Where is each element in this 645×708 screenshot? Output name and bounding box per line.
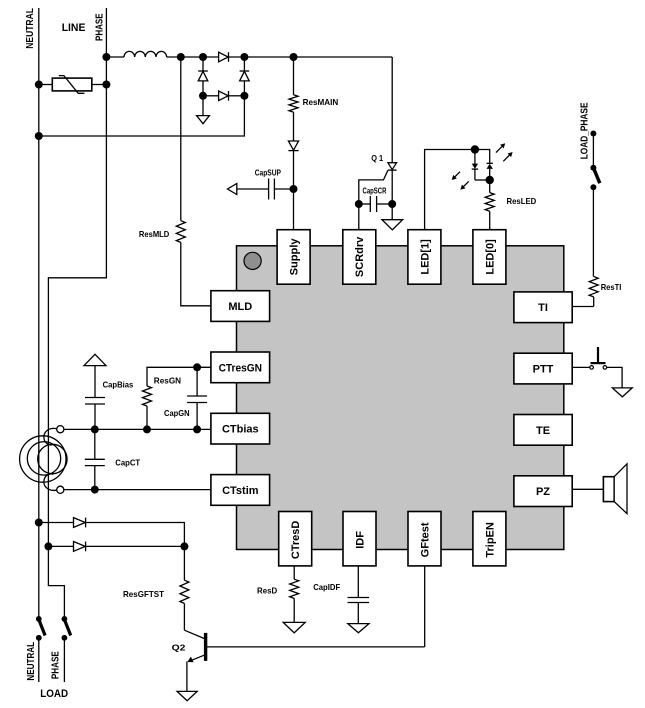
svg-text:PHASE: PHASE	[94, 13, 105, 41]
node: phase / top rail junction	[102, 53, 110, 61]
capacitor CapGN	[187, 367, 207, 429]
svg-text:ResMAIN: ResMAIN	[303, 97, 339, 107]
wire: NEUTRAL vertical line	[38, 8, 40, 619]
wire: PZ pin to speaker	[572, 488, 603, 490]
svg-text:PZ: PZ	[536, 486, 550, 498]
svg-text:GFtest: GFtest	[419, 522, 431, 557]
svg-text:CTbias: CTbias	[222, 424, 259, 436]
pin PTT	[514, 353, 572, 384]
svg-text:Supply: Supply	[289, 238, 301, 276]
node: CapBias on rail	[91, 425, 99, 433]
node: phase / test diode junction	[44, 542, 52, 550]
switch SW2 load neutral	[36, 616, 45, 682]
svg-text:Q2: Q2	[172, 642, 186, 652]
svg-text:SCRdrv: SCRdrv	[354, 236, 366, 277]
IC body U1	[237, 246, 564, 550]
node: MOV-phase junction	[102, 81, 110, 89]
node: SCR gate node	[355, 200, 363, 208]
capacitor CapIDF	[348, 566, 370, 624]
node: CapGN top junction	[193, 363, 201, 371]
pin TI	[514, 292, 572, 323]
svg-text:ResMLD: ResMLD	[139, 229, 169, 239]
node: CapGN on rail	[193, 425, 201, 433]
ground: SCR cathode	[382, 204, 403, 230]
node: bridge left bottom	[199, 92, 207, 100]
LED emission arrows NE	[496, 143, 513, 161]
wire: top rail from phase to inductor	[106, 56, 124, 58]
SCR Q1	[359, 57, 397, 204]
inductor L1	[124, 51, 167, 57]
LED DL2 (right, cathode up)	[487, 163, 493, 180]
ground: CapIDF	[348, 624, 369, 633]
ground: ResD	[283, 622, 305, 632]
ground: push button	[612, 388, 632, 397]
node: LED top junction	[471, 145, 479, 153]
svg-text:TI: TI	[538, 302, 548, 314]
svg-text:CapSCR: CapSCR	[363, 186, 387, 196]
svg-text:LOAD: LOAD	[40, 688, 68, 700]
pin TripEN	[473, 512, 506, 566]
wire: gate node to SCRdrv pin	[358, 204, 360, 230]
node: neutral / bridge return junction	[35, 132, 43, 140]
push button S2	[590, 347, 607, 369]
wire: supply node to Supply pin	[293, 189, 295, 230]
LED emission arrows SW	[452, 172, 469, 190]
ground: CapBias up arrow	[84, 354, 106, 365]
node: bridge left top	[199, 53, 207, 61]
svg-text:NEUTRAL: NEUTRAL	[25, 8, 36, 49]
svg-text:CapCT: CapCT	[115, 458, 140, 468]
pin 1 indicator dot	[244, 252, 261, 269]
wire: top rail inductor to Q1 corner	[167, 56, 393, 58]
svg-text:LED[0]: LED[0]	[484, 239, 496, 275]
pin CTresGN	[211, 352, 270, 383]
speaker (piezo)	[603, 464, 627, 514]
switch SW1 LOAD_PHASE	[590, 131, 599, 277]
node: bridge right bottom	[240, 92, 248, 100]
diode D4 bridge bottom	[203, 91, 244, 101]
diode D2 bridge left vertical	[198, 57, 208, 96]
diode D5 below ResMAIN	[288, 141, 298, 189]
svg-text:CapBias: CapBias	[103, 380, 134, 390]
pin CTresD	[279, 512, 312, 566]
svg-text:NEUTRAL: NEUTRAL	[26, 642, 37, 681]
svg-text:ResGN: ResGN	[154, 376, 181, 386]
node: ResGFTST top junction	[180, 542, 188, 550]
svg-text:CapIDF: CapIDF	[313, 582, 340, 592]
LED DL1 (left, cathode down)	[472, 150, 490, 181]
node: CapCT on CTstim line	[91, 486, 99, 494]
resistor ResMLD	[176, 57, 211, 306]
transistor Q2	[184, 630, 424, 691]
wire: GFtest to Q2 base	[424, 566, 426, 647]
node: SCR cathode node	[388, 200, 396, 208]
node: ResMLD tap on top rail	[177, 53, 185, 61]
wire: CTresGN line	[147, 367, 211, 386]
ground: CapSUP left arrow	[228, 184, 237, 195]
svg-text:Q 1: Q 1	[371, 153, 383, 163]
svg-text:LOAD_PHASE: LOAD_PHASE	[579, 102, 590, 159]
pin PZ	[514, 476, 572, 507]
pin LED[0]	[473, 230, 506, 285]
svg-text:ResD: ResD	[257, 586, 277, 596]
svg-text:ResTI: ResTI	[601, 282, 622, 292]
capacitor CapSCR	[359, 196, 392, 212]
svg-text:LED[1]: LED[1]	[419, 239, 431, 275]
wire: CTstim line	[63, 489, 211, 491]
resistor ResGN	[143, 386, 152, 429]
node: ResGN on rail	[143, 425, 151, 433]
svg-text:CapGN: CapGN	[164, 408, 190, 418]
svg-text:TE: TE	[536, 425, 550, 437]
varistor MOV	[39, 76, 107, 94]
pin SCRdrv	[343, 230, 376, 285]
node: bridge right top	[240, 53, 248, 61]
wire: CTbias rail	[63, 428, 211, 430]
svg-text:CTresD: CTresD	[290, 521, 302, 560]
svg-text:PHASE: PHASE	[51, 651, 62, 679]
pin LED[1]	[408, 230, 441, 285]
node: MOV-neutral junction	[35, 81, 43, 89]
pin IDF	[343, 512, 376, 566]
node: LED bottom junction	[486, 176, 494, 184]
node: supply node	[290, 185, 298, 193]
svg-text:LINE: LINE	[62, 22, 86, 34]
pin TE	[514, 415, 572, 446]
capacitor CapBias	[85, 366, 105, 430]
diode D3 bridge right vertical	[240, 57, 250, 96]
capacitor CapSUP	[237, 179, 294, 200]
svg-text:CTresGN: CTresGN	[219, 362, 262, 374]
svg-text:MLD: MLD	[228, 301, 252, 313]
svg-text:PTT: PTT	[533, 364, 554, 376]
pin CTbias	[211, 413, 270, 444]
pin Supply	[277, 230, 310, 285]
svg-text:CapSUP: CapSUP	[255, 168, 282, 178]
ground: Q2 emitter	[177, 691, 197, 700]
svg-text:ResGFTST: ResGFTST	[123, 589, 164, 599]
diode D7 (phase test)	[48, 542, 184, 552]
node: neutral / test diode junction	[35, 519, 43, 527]
wire: PTT pin to push button	[572, 366, 590, 368]
current transformer CT	[20, 426, 68, 494]
svg-text:ResLED: ResLED	[507, 196, 537, 206]
svg-text:CTstim: CTstim	[222, 485, 259, 497]
resistor ResD	[290, 566, 299, 623]
ground: bridge	[197, 96, 210, 124]
svg-text:TripEN: TripEN	[484, 522, 496, 558]
pin MLD	[211, 291, 270, 322]
wire: push button to ground	[607, 367, 622, 388]
pin GFtest	[408, 512, 441, 566]
resistor ResGFTST	[180, 546, 189, 630]
wire: bridge right bottom to neutral line	[39, 96, 245, 136]
resistor ResTI	[572, 277, 598, 307]
resistor ResLED	[485, 180, 494, 230]
resistor ResMAIN	[289, 57, 298, 141]
wire: LED[1] pin up and over	[425, 150, 490, 230]
diode D1 bridge top	[219, 52, 229, 62]
capacitor CapCT	[85, 429, 105, 489]
pin CTstim	[211, 475, 270, 506]
diode D6 (neutral test)	[39, 518, 185, 547]
switch SW3 load phase	[62, 616, 71, 682]
svg-text:IDF: IDF	[354, 531, 366, 549]
wire: PHASE vertical line with jog to CT	[48, 8, 106, 619]
node: ResMAIN tap on top rail	[290, 53, 298, 61]
